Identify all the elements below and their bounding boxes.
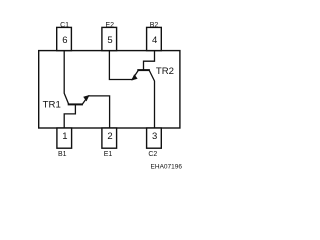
- svg-text:B2: B2: [150, 22, 159, 29]
- svg-text:2: 2: [107, 131, 112, 142]
- TR2 emitter diagonal: [132, 71, 138, 80]
- TR1 emitter arrowhead: [84, 95, 90, 101]
- pin 6 box: [57, 27, 72, 50]
- svg-text:E2: E2: [106, 22, 115, 29]
- svg-text:TR1: TR1: [43, 100, 61, 111]
- pin 2 box: [102, 128, 117, 148]
- TR2 collector diagonal and wire to pin3: [149, 71, 154, 129]
- svg-text:C1: C1: [60, 22, 69, 29]
- wire TR2 base to pin4: [144, 51, 155, 71]
- svg-text:3: 3: [152, 131, 157, 142]
- svg-text:TR2: TR2: [156, 66, 174, 77]
- package body outline: [39, 51, 180, 128]
- transistor TR2 base bar: [137, 69, 150, 71]
- svg-text:EHA07196: EHA07196: [151, 163, 183, 170]
- svg-text:5: 5: [107, 35, 112, 46]
- transistor TR1 base bar: [68, 103, 83, 105]
- wire TR1 base to pin1: [64, 104, 75, 128]
- svg-text:C2: C2: [148, 151, 157, 158]
- svg-text:6: 6: [62, 35, 67, 46]
- svg-text:4: 4: [152, 35, 157, 46]
- svg-text:1: 1: [62, 131, 67, 142]
- svg-text:E1: E1: [104, 151, 113, 158]
- pin 1 box: [57, 128, 72, 148]
- TR2 emitter arrowhead: [132, 75, 138, 81]
- TR1 emitter diagonal with arrow: [82, 96, 88, 104]
- wire TR1 emitter to pin2: [88, 96, 109, 128]
- svg-text:B1: B1: [58, 151, 67, 158]
- pin 4 box: [147, 27, 162, 50]
- wire pin5 to TR2 emitter: [109, 51, 132, 80]
- pin 5 box: [102, 27, 117, 50]
- pin 3 box: [147, 128, 162, 148]
- wire pin6 to TR1 collector: [64, 51, 68, 104]
